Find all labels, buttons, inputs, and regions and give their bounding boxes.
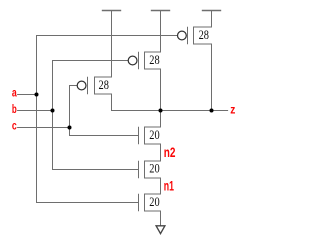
nmos N1 gate bar [138, 194, 140, 211]
pmos P1 bubble [77, 81, 86, 90]
wire b to P2 gate [53, 60, 128, 62]
junction dot net c [68, 126, 72, 130]
svg-text:20: 20 [149, 194, 159, 209]
pmos P1 drain down to z [111, 94, 113, 111]
wire b to N2 gate [53, 169, 139, 171]
nmos N2 gate bar [138, 161, 140, 178]
pmos P3 drain down to z [211, 44, 213, 111]
vdd supply 2 bar [152, 10, 170, 12]
wire a to N1 gate [37, 202, 139, 204]
pmos P2 bubble [128, 56, 137, 65]
wire c vertical [69, 86, 71, 136]
junction dot net b [51, 109, 55, 113]
pmos P3 gate bar [187, 27, 189, 44]
svg-text:20: 20 [149, 127, 159, 142]
svg-text:n1: n1 [164, 178, 174, 194]
pmos P2 drain down to z [160, 69, 162, 111]
svg-text:n2: n2 [164, 144, 176, 160]
vdd supply 1 bar [103, 10, 121, 12]
vdd supply 3 stem [211, 11, 213, 28]
ground symbol [156, 226, 165, 234]
svg-text:28: 28 [99, 77, 109, 92]
nmos N3 channel and leads [145, 127, 161, 144]
wire a to P3 gate [37, 35, 177, 37]
wire c to N3 gate [70, 135, 139, 137]
pmos P2 gate bar [138, 52, 140, 69]
svg-text:20: 20 [149, 160, 159, 175]
pmos P2 channel and leads [145, 52, 161, 69]
vdd supply 3 bar [203, 10, 221, 12]
nmos N3 drain from z [160, 111, 162, 128]
svg-text:28: 28 [149, 52, 159, 67]
wire z rail [112, 110, 228, 112]
junction dot net a [35, 93, 39, 97]
pmos P1 gate bar [87, 77, 89, 94]
junction dot z right [210, 109, 214, 113]
svg-text:b: b [12, 104, 17, 116]
wire c to P1 gate [70, 85, 77, 87]
wire b lead-in [18, 110, 53, 112]
wire b vertical [52, 61, 54, 170]
pmos P3 channel and leads [194, 27, 212, 44]
svg-text:z: z [230, 104, 235, 116]
nmos N1 channel and leads [145, 194, 161, 211]
pmos P1 channel and leads [95, 77, 112, 94]
pmos P3 bubble [178, 31, 187, 40]
wire N1 source to ground [160, 211, 162, 225]
junction dot z left [159, 109, 163, 113]
svg-text:28: 28 [199, 27, 209, 42]
svg-text:a: a [12, 88, 17, 100]
node n2 wire [160, 144, 162, 161]
svg-text:c: c [12, 121, 17, 133]
node n1 wire [160, 178, 162, 194]
nmos N3 gate bar [138, 127, 140, 144]
wire a vertical [36, 36, 38, 203]
nmos N2 channel and leads [145, 161, 161, 178]
vdd supply 2 stem [160, 11, 162, 53]
wire c lead-in [18, 127, 70, 129]
vdd supply 1 stem [111, 11, 113, 78]
wire a lead-in [18, 94, 37, 96]
